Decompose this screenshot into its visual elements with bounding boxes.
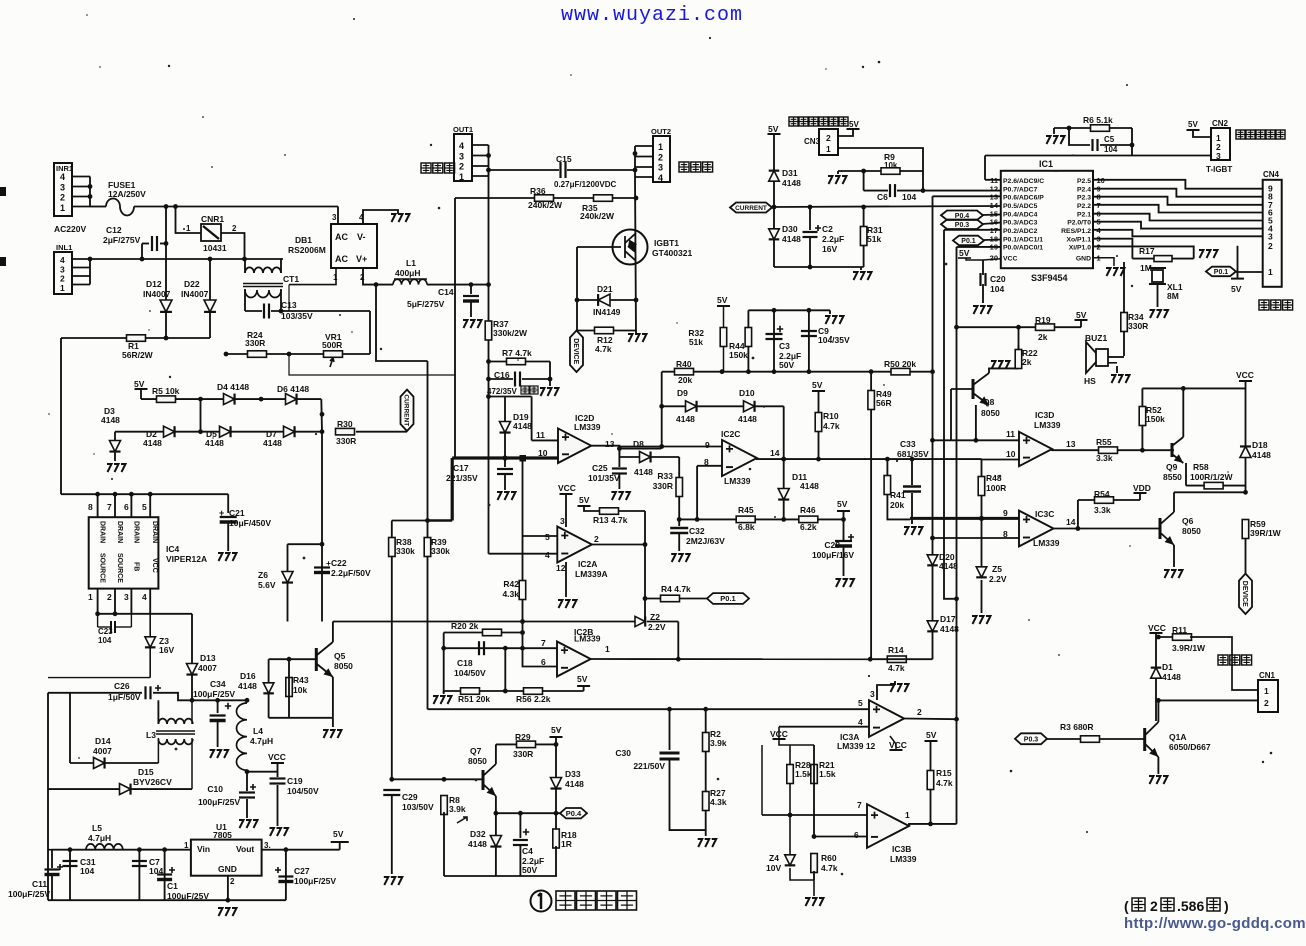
svg-text:6050/D667: 6050/D667 <box>1169 742 1211 752</box>
svg-text:D30: D30 <box>782 224 798 234</box>
svg-text:1: 1 <box>184 841 189 850</box>
svg-text:R11: R11 <box>1172 625 1187 635</box>
svg-text:Q5: Q5 <box>334 651 346 661</box>
svg-text:CN2: CN2 <box>1212 119 1229 128</box>
svg-text:4148: 4148 <box>468 839 487 849</box>
svg-text:1: 1 <box>186 224 191 233</box>
svg-text:4148: 4148 <box>676 414 695 424</box>
svg-text:4.7μH: 4.7μH <box>88 833 111 843</box>
svg-text:VCC: VCC <box>889 740 907 750</box>
svg-text:C16: C16 <box>494 370 510 380</box>
svg-text:RS2006M: RS2006M <box>288 245 326 255</box>
svg-text:C30: C30 <box>615 748 631 758</box>
svg-text:C12: C12 <box>106 225 122 235</box>
svg-text:472/35V: 472/35V <box>487 387 517 396</box>
svg-text:P0.5/ADC5: P0.5/ADC5 <box>1003 203 1038 210</box>
svg-text:IC3C: IC3C <box>1035 509 1054 519</box>
svg-text:4148: 4148 <box>143 438 162 448</box>
svg-text:Xo/P1.1: Xo/P1.1 <box>1066 237 1091 244</box>
svg-text:GND: GND <box>218 864 237 874</box>
svg-text:6: 6 <box>124 502 129 512</box>
svg-text:2.2μF: 2.2μF <box>822 234 844 244</box>
svg-text:P2.2: P2.2 <box>1077 203 1091 210</box>
svg-text:5V: 5V <box>579 495 590 505</box>
svg-text:Z6: Z6 <box>258 570 268 580</box>
svg-text:5V: 5V <box>717 295 728 305</box>
svg-text:IC3B: IC3B <box>892 844 911 854</box>
svg-text:103/35V: 103/35V <box>281 311 313 321</box>
svg-text:C4: C4 <box>522 846 533 856</box>
svg-text:1: 1 <box>905 810 910 820</box>
svg-text:1.5k: 1.5k <box>819 769 836 779</box>
svg-text:150k: 150k <box>729 350 748 360</box>
svg-text:3: 3 <box>560 516 565 526</box>
svg-text:6: 6 <box>541 657 546 667</box>
svg-text:C20: C20 <box>990 274 1006 284</box>
svg-text:10431: 10431 <box>203 243 227 253</box>
svg-text:DRAIN: DRAIN <box>116 521 123 543</box>
svg-text:330R: 330R <box>245 338 265 348</box>
svg-text:330R: 330R <box>1128 321 1148 331</box>
svg-text:R55: R55 <box>1096 437 1112 447</box>
svg-text:9: 9 <box>705 440 710 450</box>
svg-text:6.2k: 6.2k <box>800 522 817 532</box>
svg-text:10V: 10V <box>766 863 781 873</box>
svg-text:330k/2W: 330k/2W <box>493 328 528 338</box>
svg-text:Q1A: Q1A <box>1169 732 1186 742</box>
svg-text:P2.3: P2.3 <box>1077 195 1091 202</box>
svg-text:2: 2 <box>1264 698 1269 708</box>
svg-text:R7 4.7k: R7 4.7k <box>502 348 532 358</box>
svg-text:14: 14 <box>990 201 999 210</box>
svg-text:SOURCE: SOURCE <box>99 553 106 583</box>
svg-text:3.9k: 3.9k <box>710 738 727 748</box>
svg-text:P0.3: P0.3 <box>955 222 970 229</box>
svg-text:240k/2W: 240k/2W <box>528 200 563 210</box>
svg-text:104/50V: 104/50V <box>454 668 486 678</box>
svg-text:2k: 2k <box>1022 357 1032 367</box>
svg-text:4148: 4148 <box>1162 672 1181 682</box>
svg-text:D31: D31 <box>782 168 798 178</box>
svg-text:221/50V: 221/50V <box>633 761 665 771</box>
svg-text:5V: 5V <box>1231 284 1242 294</box>
svg-text:5.6V: 5.6V <box>258 580 276 590</box>
svg-text:R48: R48 <box>986 473 1002 483</box>
svg-text:2k: 2k <box>1038 332 1048 342</box>
svg-text:100μF/25V: 100μF/25V <box>8 889 50 899</box>
svg-text:4.7k: 4.7k <box>888 663 905 673</box>
svg-text:DB1: DB1 <box>295 235 312 245</box>
svg-text:C6: C6 <box>877 192 888 202</box>
svg-text:V-: V- <box>357 232 366 242</box>
svg-text:D14: D14 <box>95 736 111 746</box>
svg-text:2.2V: 2.2V <box>989 574 1007 584</box>
svg-text:1: 1 <box>658 142 663 152</box>
svg-text:2: 2 <box>658 152 663 162</box>
svg-text:IGBT1: IGBT1 <box>654 238 679 248</box>
svg-text:8050: 8050 <box>1182 526 1201 536</box>
svg-text:R3 680R: R3 680R <box>1060 722 1094 732</box>
svg-text:4148: 4148 <box>565 779 584 789</box>
svg-text:VIPER12A: VIPER12A <box>166 554 207 564</box>
svg-text:Q7: Q7 <box>470 746 482 756</box>
svg-text:1: 1 <box>60 203 65 213</box>
svg-text:240k/2W: 240k/2W <box>580 211 615 221</box>
svg-text:8050: 8050 <box>468 756 487 766</box>
svg-text:P0.4/ADC4: P0.4/ADC4 <box>1003 212 1038 219</box>
svg-text:Z5: Z5 <box>992 564 1002 574</box>
svg-text:4148: 4148 <box>800 481 819 491</box>
svg-text:D9: D9 <box>677 388 688 398</box>
svg-text:R17: R17 <box>1139 246 1155 256</box>
svg-text:4148: 4148 <box>513 421 532 431</box>
svg-text:2: 2 <box>230 877 235 886</box>
svg-text:2: 2 <box>1150 898 1158 914</box>
svg-text:7: 7 <box>541 638 546 648</box>
svg-text:5V: 5V <box>837 499 848 509</box>
svg-text:8050: 8050 <box>981 408 1000 418</box>
svg-text:P0.2/ADC2: P0.2/ADC2 <box>1003 228 1038 235</box>
svg-text:R40: R40 <box>676 359 692 369</box>
svg-text:C2: C2 <box>822 224 833 234</box>
svg-text:50V: 50V <box>779 360 794 370</box>
svg-text:104/50V: 104/50V <box>287 786 319 796</box>
svg-text:OUT1: OUT1 <box>453 125 473 134</box>
svg-text:Q8: Q8 <box>983 397 995 407</box>
svg-text:13: 13 <box>1066 439 1076 449</box>
svg-text:CURRENT: CURRENT <box>403 394 410 426</box>
svg-text:4148: 4148 <box>939 561 958 571</box>
svg-text:2μF/275V: 2μF/275V <box>103 235 141 245</box>
svg-text:4007: 4007 <box>93 746 112 756</box>
svg-text:3: 3 <box>459 151 464 161</box>
svg-text:DEVICE: DEVICE <box>572 338 579 364</box>
svg-text:L5: L5 <box>92 823 102 833</box>
svg-text:4148: 4148 <box>738 414 757 424</box>
svg-text:R51 20k: R51 20k <box>458 694 490 704</box>
svg-text:P0.4: P0.4 <box>566 809 582 818</box>
svg-text:1: 1 <box>459 172 464 182</box>
svg-text:4: 4 <box>60 172 65 182</box>
svg-text:D15: D15 <box>138 767 154 777</box>
svg-text:2.2V: 2.2V <box>648 622 666 632</box>
svg-text:BYV26CV: BYV26CV <box>133 777 172 787</box>
svg-text:): ) <box>1224 898 1229 914</box>
svg-text:C29: C29 <box>402 792 418 802</box>
svg-text:IN4007: IN4007 <box>181 289 209 299</box>
svg-text:681/35V: 681/35V <box>897 449 929 459</box>
svg-text:Vout: Vout <box>236 844 254 854</box>
svg-text:10k: 10k <box>293 685 307 695</box>
svg-text:T-IGBT: T-IGBT <box>1206 165 1232 174</box>
svg-text:VCC: VCC <box>1148 623 1166 633</box>
svg-text:D18: D18 <box>1252 440 1268 450</box>
svg-text:7: 7 <box>107 502 112 512</box>
svg-text:AC: AC <box>335 254 348 264</box>
svg-text:R45: R45 <box>738 505 754 515</box>
svg-text:5V: 5V <box>1188 120 1198 129</box>
svg-text:DRAIN: DRAIN <box>99 521 106 543</box>
svg-text:14: 14 <box>770 448 780 458</box>
svg-text:2: 2 <box>826 133 831 143</box>
svg-text:100R: 100R <box>986 483 1006 493</box>
svg-text:R58: R58 <box>1193 462 1209 472</box>
svg-text:2: 2 <box>459 162 464 172</box>
svg-text:IC2A: IC2A <box>578 559 597 569</box>
svg-text:100μF/25V: 100μF/25V <box>193 689 235 699</box>
svg-text:2: 2 <box>232 224 237 233</box>
svg-text:5V: 5V <box>849 120 859 129</box>
svg-text:VDD: VDD <box>1133 483 1151 493</box>
svg-text:4148: 4148 <box>634 467 653 477</box>
svg-text:4: 4 <box>459 141 464 151</box>
svg-text:Vin: Vin <box>197 844 210 854</box>
svg-text:LM339: LM339 <box>890 854 917 864</box>
svg-text:VCC: VCC <box>1236 370 1254 380</box>
svg-text:C18: C18 <box>457 658 473 668</box>
svg-text:4148: 4148 <box>1252 450 1271 460</box>
svg-text:50V: 50V <box>522 865 537 875</box>
svg-text:D10: D10 <box>739 388 755 398</box>
svg-text:C26: C26 <box>114 681 130 691</box>
svg-text:400μH: 400μH <box>395 268 421 278</box>
svg-text:104: 104 <box>1104 145 1118 154</box>
svg-text:C34: C34 <box>210 679 226 689</box>
svg-text:HS: HS <box>1084 376 1096 386</box>
svg-text:IN4007: IN4007 <box>143 289 171 299</box>
svg-text:2.2μF/50V: 2.2μF/50V <box>331 568 371 578</box>
svg-text:D17: D17 <box>940 614 956 624</box>
svg-text:BUZ1: BUZ1 <box>1085 333 1107 343</box>
svg-text:R4 4.7k: R4 4.7k <box>661 584 691 594</box>
svg-text:C23: C23 <box>98 627 113 636</box>
svg-text:221/35V: 221/35V <box>446 473 478 483</box>
svg-text:SOURCE: SOURCE <box>116 553 123 583</box>
svg-text:8: 8 <box>88 502 93 512</box>
svg-text:1: 1 <box>1268 267 1273 277</box>
svg-text:P0.3/ADC3: P0.3/ADC3 <box>1003 220 1038 227</box>
svg-text:150k: 150k <box>1146 414 1165 424</box>
svg-text:2: 2 <box>60 193 65 203</box>
svg-text:Z2: Z2 <box>650 612 660 622</box>
svg-text:D1: D1 <box>1162 662 1173 672</box>
svg-text:LM339: LM339 <box>574 422 601 432</box>
svg-text:100μF/16V: 100μF/16V <box>812 550 854 560</box>
svg-text:R54: R54 <box>1094 489 1110 499</box>
svg-text:8M: 8M <box>1167 291 1179 301</box>
svg-text:GND: GND <box>1076 256 1091 263</box>
svg-text:R42: R42 <box>503 579 519 589</box>
svg-text:13: 13 <box>605 439 615 449</box>
svg-text:8550: 8550 <box>1163 472 1182 482</box>
svg-text:6: 6 <box>854 830 859 840</box>
svg-text:C15: C15 <box>556 154 572 164</box>
svg-text:104: 104 <box>80 866 94 876</box>
svg-text:1μF/50V: 1μF/50V <box>108 692 141 702</box>
svg-text:C1: C1 <box>167 881 178 891</box>
svg-text:R43: R43 <box>293 675 309 685</box>
svg-text:LM339A: LM339A <box>575 569 608 579</box>
svg-text:Z4: Z4 <box>769 853 779 863</box>
svg-text:7: 7 <box>857 800 862 810</box>
svg-text:C19: C19 <box>287 776 303 786</box>
svg-text:4.7k: 4.7k <box>595 344 612 354</box>
svg-text:5V: 5V <box>333 829 344 839</box>
svg-text:D8: D8 <box>633 439 644 449</box>
svg-text:104/35V: 104/35V <box>818 335 850 345</box>
svg-text:D6 4148: D6 4148 <box>277 384 309 394</box>
svg-text:CURRENT: CURRENT <box>735 205 767 212</box>
svg-text:3: 3 <box>658 163 663 173</box>
svg-text:CN3: CN3 <box>804 137 821 146</box>
svg-text:4.7k: 4.7k <box>936 778 953 788</box>
svg-text:R15: R15 <box>936 768 952 778</box>
svg-text:4.7k: 4.7k <box>823 421 840 431</box>
svg-text:L3: L3 <box>146 730 156 740</box>
svg-text:5V: 5V <box>134 379 145 389</box>
svg-text:S3F9454: S3F9454 <box>1031 273 1068 283</box>
svg-text:R56 2.2k: R56 2.2k <box>516 694 551 704</box>
svg-text:20: 20 <box>990 254 998 263</box>
svg-text:104: 104 <box>98 636 112 645</box>
svg-text:GT400321: GT400321 <box>652 248 692 258</box>
svg-text:1R: 1R <box>561 839 572 849</box>
svg-text:L4: L4 <box>253 726 263 736</box>
svg-text:0.27μF/1200VDC: 0.27μF/1200VDC <box>554 180 616 189</box>
svg-text:5V: 5V <box>577 674 588 684</box>
svg-text:20k: 20k <box>890 500 904 510</box>
svg-text:FB: FB <box>132 562 139 571</box>
svg-text:D33: D33 <box>565 769 581 779</box>
svg-text:D12: D12 <box>146 279 162 289</box>
svg-text:5: 5 <box>142 502 147 512</box>
svg-text:R13 4.7k: R13 4.7k <box>593 515 628 525</box>
svg-text:R41: R41 <box>890 490 906 500</box>
svg-text:5: 5 <box>858 698 863 708</box>
svg-text:R60: R60 <box>821 853 837 863</box>
svg-text:3.9k: 3.9k <box>449 804 466 814</box>
svg-text:3.9R/1W: 3.9R/1W <box>1172 643 1206 653</box>
svg-text:4148: 4148 <box>782 178 801 188</box>
svg-text:51k: 51k <box>689 337 703 347</box>
svg-text:C3: C3 <box>779 341 790 351</box>
svg-text:1: 1 <box>605 644 610 654</box>
svg-text:100μF/25V: 100μF/25V <box>198 797 240 807</box>
svg-text:39R/1W: 39R/1W <box>1250 528 1282 538</box>
svg-text:3: 3 <box>870 689 875 699</box>
svg-text:R20 2k: R20 2k <box>451 621 479 631</box>
svg-text:5V: 5V <box>812 380 823 390</box>
svg-text:4: 4 <box>142 592 147 602</box>
svg-text:14: 14 <box>1066 517 1076 527</box>
svg-text:10: 10 <box>1006 449 1016 459</box>
svg-text:R33: R33 <box>657 471 673 481</box>
svg-text:D21: D21 <box>597 284 613 294</box>
svg-text:4148: 4148 <box>238 681 257 691</box>
svg-text:16V: 16V <box>159 645 174 655</box>
svg-text:P2.0/T0: P2.0/T0 <box>1067 220 1091 227</box>
svg-text:5V: 5V <box>1076 310 1087 320</box>
svg-text:330k: 330k <box>431 546 450 556</box>
svg-text:LM339: LM339 <box>574 634 601 644</box>
svg-text:VCC: VCC <box>151 558 158 573</box>
svg-text:12: 12 <box>556 563 566 573</box>
svg-text:LM339: LM339 <box>1034 420 1061 430</box>
svg-text:LM339: LM339 <box>1033 538 1060 548</box>
svg-text:56R/2W: 56R/2W <box>122 350 154 360</box>
svg-text:4148: 4148 <box>263 438 282 448</box>
svg-text:INL1: INL1 <box>56 243 72 252</box>
svg-text:4.3k: 4.3k <box>710 797 727 807</box>
svg-text:C33: C33 <box>900 439 916 449</box>
svg-text:LM339: LM339 <box>724 476 751 486</box>
svg-text:4148: 4148 <box>205 438 224 448</box>
svg-text:IN4149: IN4149 <box>593 307 621 317</box>
svg-text:R50 20k: R50 20k <box>884 359 916 369</box>
svg-text:IC1: IC1 <box>1039 159 1053 169</box>
svg-text:5: 5 <box>545 532 550 542</box>
svg-text:3.3k: 3.3k <box>1096 453 1113 463</box>
svg-text:104: 104 <box>902 192 916 202</box>
svg-text:4: 4 <box>858 717 863 727</box>
svg-text:330R: 330R <box>336 436 356 446</box>
svg-text:P0.7/ADC7: P0.7/ADC7 <box>1003 187 1038 194</box>
svg-text:51k: 51k <box>867 234 881 244</box>
svg-text:4148: 4148 <box>782 234 801 244</box>
svg-text:5V: 5V <box>926 730 937 740</box>
svg-text:Q9: Q9 <box>1166 462 1178 472</box>
svg-text:P0.6/ADC6/P: P0.6/ADC6/P <box>1003 195 1044 202</box>
svg-text:D22: D22 <box>184 279 200 289</box>
svg-text:DRAIN: DRAIN <box>132 521 139 543</box>
svg-text:3.3k: 3.3k <box>1094 505 1111 515</box>
svg-text:D13: D13 <box>200 653 216 663</box>
svg-text:IC3D: IC3D <box>1035 410 1054 420</box>
svg-text:100μF/25V: 100μF/25V <box>294 876 336 886</box>
svg-text:R5 10k: R5 10k <box>152 386 180 396</box>
svg-text:4.7k: 4.7k <box>821 863 838 873</box>
svg-text:10k: 10k <box>884 161 898 170</box>
svg-text:330R: 330R <box>653 481 673 491</box>
svg-text:P0.1: P0.1 <box>720 594 735 603</box>
svg-text:3.: 3. <box>264 841 271 850</box>
svg-text:4.3k: 4.3k <box>502 589 519 599</box>
svg-text:P2.5: P2.5 <box>1077 178 1091 185</box>
svg-text:OUT2: OUT2 <box>651 127 671 136</box>
svg-text:8050: 8050 <box>334 661 353 671</box>
svg-text:P2.6/ADC9/C: P2.6/ADC9/C <box>1003 178 1044 185</box>
svg-text:AC: AC <box>335 232 348 242</box>
svg-text:DEVICE: DEVICE <box>1241 581 1248 607</box>
svg-text:4: 4 <box>658 173 663 183</box>
svg-text:P2.4: P2.4 <box>1077 187 1091 194</box>
svg-text:C10: C10 <box>207 784 223 794</box>
svg-text:2: 2 <box>107 592 112 602</box>
svg-text:9: 9 <box>1003 508 1008 518</box>
svg-text:P0.0/ADC0/1: P0.0/ADC0/1 <box>1003 244 1043 251</box>
svg-text:3: 3 <box>1268 231 1273 241</box>
svg-text:R14: R14 <box>888 645 904 655</box>
svg-text:Xi/P1.0: Xi/P1.0 <box>1069 244 1092 251</box>
svg-text:2M2J/63V: 2M2J/63V <box>686 536 725 546</box>
svg-text:+C22: +C22 <box>326 558 347 568</box>
svg-text:2: 2 <box>917 707 922 717</box>
svg-text:D32: D32 <box>470 829 486 839</box>
svg-text:RES/P1.2: RES/P1.2 <box>1061 228 1091 235</box>
svg-text:2: 2 <box>594 534 599 544</box>
svg-text:11: 11 <box>1006 429 1015 439</box>
svg-text:P2.1: P2.1 <box>1077 212 1091 219</box>
